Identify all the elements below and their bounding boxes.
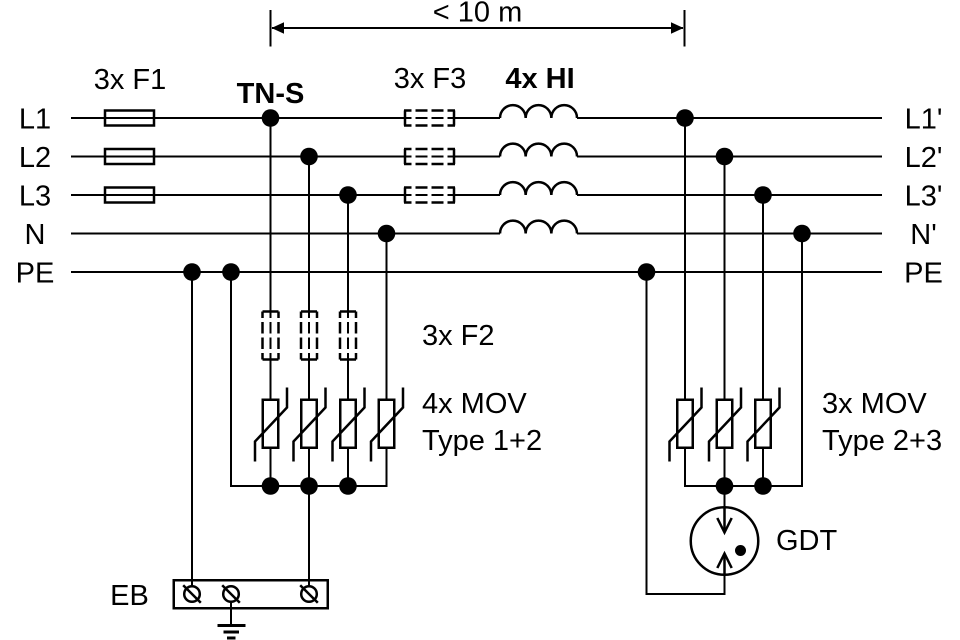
wire between F2 and MOV (L2 branch) bbox=[308, 360, 310, 399]
fuse F2.1 on L1 branch (dashed) bbox=[263, 312, 279, 360]
wire tap from L3' down to MOV bbox=[762, 195, 764, 399]
wire L1 right segment bbox=[577, 117, 882, 119]
inductor HI.4 bbox=[500, 221, 577, 234]
varistor MOV3 (Type 1+2) bbox=[340, 400, 356, 448]
ground (earth electrode) bbox=[218, 624, 246, 627]
node left bus MOV3 bbox=[339, 477, 357, 495]
dimension arrowhead left bbox=[272, 22, 285, 34]
wire tap from L1 down to fuse F2 bbox=[270, 118, 272, 312]
node PE tap GDT bbox=[638, 263, 656, 281]
svg-text:Type 1+2: Type 1+2 bbox=[422, 425, 542, 457]
node L3 tap bbox=[339, 186, 357, 204]
node right bus MOV7 bbox=[754, 477, 772, 495]
varistor MOV4 (Type 1+2) bbox=[379, 400, 395, 448]
wire left bus down to EB terminal 3 bbox=[308, 486, 310, 585]
wire GDT bottom stub bbox=[724, 576, 726, 595]
wire N left segment bbox=[71, 233, 500, 235]
svg-text:L1: L1 bbox=[19, 104, 51, 136]
dimension arrowhead right bbox=[671, 22, 684, 34]
svg-text:3x F2: 3x F2 bbox=[422, 320, 495, 352]
node PE tap EB bbox=[183, 263, 201, 281]
wire between F2 and MOV (L3 branch) bbox=[347, 360, 349, 399]
node N tap bbox=[378, 225, 396, 243]
GDT bottom arrow chevron bbox=[717, 554, 731, 569]
svg-text:PE: PE bbox=[904, 258, 943, 290]
dimension tick right bbox=[684, 10, 686, 47]
EB terminal 2 bbox=[223, 586, 239, 602]
wire tap from L3 down to fuse F2 bbox=[347, 195, 349, 312]
wire tap from L2 down to fuse F2 bbox=[308, 157, 310, 312]
svg-text:L3': L3' bbox=[905, 181, 943, 213]
wire right bus down to GDT bbox=[724, 486, 726, 507]
inductor HI.1 bbox=[500, 105, 577, 118]
GDT top arrow chevron bbox=[717, 518, 731, 533]
wire MOV4 bottom to bus bbox=[386, 449, 388, 487]
svg-text:Type 2+3: Type 2+3 bbox=[822, 425, 942, 457]
fuse F2.2 on L2 branch (dashed) bbox=[301, 312, 317, 360]
svg-text:L1': L1' bbox=[905, 104, 943, 136]
svg-text:3x MOV: 3x MOV bbox=[822, 388, 927, 420]
node L2 tap bbox=[300, 148, 318, 166]
wire N right segment bbox=[577, 233, 882, 235]
wire MOV bottom to right bus (L3' branch) bbox=[762, 449, 764, 487]
inductor HI.2 bbox=[500, 144, 577, 157]
EB terminal 3 slash bbox=[300, 585, 318, 603]
svg-text:3x F3: 3x F3 bbox=[394, 63, 467, 95]
wire GDT return run bbox=[646, 593, 726, 595]
svg-text:L2: L2 bbox=[19, 142, 51, 174]
node PE tap bus bbox=[222, 263, 240, 281]
EB terminal 2 slash bbox=[222, 585, 240, 603]
svg-text:< 10 m: < 10 m bbox=[433, 0, 522, 29]
wire L3 right segment bbox=[577, 194, 882, 196]
svg-text:GDT: GDT bbox=[776, 525, 838, 557]
varistor MOV5 (Type 2+3) bbox=[677, 400, 693, 448]
inductor HI.3 bbox=[500, 182, 577, 195]
node L3' tap bbox=[754, 186, 772, 204]
wire EB terminal 2 to earth bbox=[230, 603, 232, 626]
fuse F3.2 on L2 (dashed) bbox=[404, 149, 455, 164]
svg-text:N': N' bbox=[910, 219, 936, 251]
EB terminal 1 slash bbox=[183, 585, 201, 603]
wire L3 segment between F3 and inductor bbox=[455, 194, 500, 196]
node left bus MOV1 bbox=[262, 477, 280, 495]
node L1 tap bbox=[262, 109, 280, 127]
wire PE tap down to EB terminal 1 bbox=[191, 272, 193, 585]
wire L3 left segment (through fuse F1) bbox=[71, 194, 404, 196]
left equipotential bus bbox=[230, 485, 388, 487]
equipotential bonding bar EB bbox=[174, 580, 328, 608]
varistor MOV6 (Type 2+3) bbox=[717, 400, 733, 448]
svg-text:N: N bbox=[25, 219, 46, 251]
svg-text:EB: EB bbox=[110, 580, 149, 612]
wire MOV bottom to right bus (L1' branch) bbox=[684, 449, 686, 487]
wire PE tap down to left bus bbox=[230, 272, 232, 487]
node N' tap bbox=[793, 225, 811, 243]
fuse F1.1 on L1 bbox=[105, 111, 154, 126]
svg-text:3x F1: 3x F1 bbox=[94, 64, 167, 96]
fuse F1.2 on L2 bbox=[105, 149, 154, 164]
dimension tick left bbox=[270, 10, 272, 47]
wire L2 right segment bbox=[577, 156, 882, 158]
fuse F3.3 on L3 (dashed) bbox=[404, 188, 455, 203]
EB terminal 1 bbox=[184, 586, 200, 602]
node L2' tap bbox=[716, 148, 734, 166]
svg-text:PE: PE bbox=[16, 258, 55, 290]
wire L2 segment between F3 and inductor bbox=[455, 156, 500, 158]
GDT bottom electrode bbox=[723, 555, 726, 576]
node L1' tap bbox=[676, 109, 694, 127]
right equipotential bus bbox=[684, 485, 803, 487]
svg-text:L2': L2' bbox=[905, 142, 943, 174]
wire MOV bottom to bus (L2 branch) bbox=[308, 449, 310, 487]
GDT top electrode bbox=[723, 507, 726, 532]
svg-text:4x MOV: 4x MOV bbox=[422, 388, 527, 420]
fuse F1.3 on L3 bbox=[105, 188, 154, 203]
fuse F3.1 on L1 (dashed) bbox=[404, 111, 455, 126]
varistor MOV2 (Type 1+2) bbox=[301, 400, 317, 448]
wire MOV bottom to bus (L3 branch) bbox=[347, 449, 349, 487]
wire MOV bottom to bus (L1 branch) bbox=[270, 449, 272, 487]
wire tap from L2' down to MOV bbox=[724, 157, 726, 399]
svg-text:TN-S: TN-S bbox=[237, 78, 305, 110]
GDT gas-fill dot bbox=[735, 545, 746, 556]
wire tap from L1' down to MOV bbox=[684, 118, 686, 399]
wire tap from N down to MOV4 bbox=[386, 234, 388, 399]
wire L1 left segment (through fuse F1) bbox=[71, 117, 404, 119]
svg-text:4x HI: 4x HI bbox=[505, 63, 574, 95]
wire between F2 and MOV (L1 branch) bbox=[270, 360, 272, 399]
fuse F2.3 on L3 branch (dashed) bbox=[340, 312, 356, 360]
varistor MOV1 (Type 1+2) bbox=[263, 400, 279, 448]
wire L1 segment between F3 and inductor bbox=[455, 117, 500, 119]
gas discharge tube GDT body bbox=[691, 507, 759, 575]
node left bus MOV2 bbox=[300, 477, 318, 495]
varistor MOV7 (Type 2+3) bbox=[755, 400, 771, 448]
wire MOV bottom to right bus (L2' branch) bbox=[724, 449, 726, 487]
dimension line bbox=[272, 27, 683, 29]
EB terminal 3 bbox=[301, 586, 317, 602]
node right bus GDT bbox=[716, 477, 734, 495]
wire tap from N' down to right bus bbox=[801, 234, 803, 488]
svg-text:L3: L3 bbox=[19, 181, 51, 213]
wire PE tap down to GDT return bbox=[646, 272, 648, 595]
wire L2 left segment (through fuse F1) bbox=[71, 156, 404, 158]
wire PE full run bbox=[71, 271, 882, 273]
